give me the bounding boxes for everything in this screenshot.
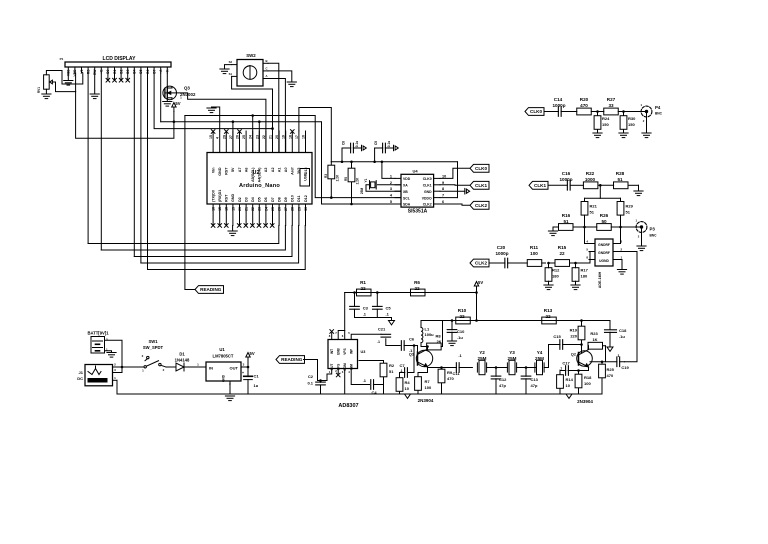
svg-text:R5: R5 (344, 177, 348, 181)
svg-text:C18: C18 (619, 328, 627, 333)
svg-text:25: 25 (242, 135, 246, 139)
junction R11 R12 (547, 262, 550, 265)
svg-text:100: 100 (425, 385, 432, 390)
svg-text:26: 26 (278, 207, 282, 211)
no-connect X at U3 INT (330, 330, 334, 340)
svg-text:(RX)D1: (RX)D1 (218, 190, 222, 202)
wire CLK0 to flag (440, 168, 470, 178)
connector P1 LCD DISPLAY header (60, 56, 171, 76)
svg-text:100u: 100u (425, 332, 435, 337)
ground left of R16 (548, 227, 558, 236)
svg-text:R16: R16 (562, 213, 571, 218)
svg-text:25M: 25M (535, 356, 544, 361)
svg-text:C17: C17 (562, 361, 570, 366)
junction R20 R24 (596, 110, 599, 113)
svg-text:Q1: Q1 (409, 353, 414, 357)
svg-text:RV1: RV1 (37, 87, 41, 93)
wire U3 INP to C21 (351, 334, 381, 339)
junction J1 battery node (117, 366, 123, 373)
svg-text:D3: D3 (244, 197, 248, 202)
svg-text:R13: R13 (544, 308, 553, 313)
wire R16 to R26 (573, 226, 597, 228)
ground at U2 GND top pin (207, 107, 220, 131)
svg-text:1000p: 1000p (552, 103, 565, 108)
resistor R12 180 (545, 263, 560, 285)
svg-text:22: 22 (545, 314, 551, 319)
svg-text:R1: R1 (360, 280, 366, 285)
svg-text:C20: C20 (497, 245, 506, 250)
wire READING to C2 node (304, 360, 321, 381)
svg-text:23: 23 (255, 135, 259, 139)
resistor R9 470 (438, 368, 454, 395)
ground at battery minus (107, 353, 116, 358)
resistor R14 10 (557, 375, 574, 394)
wire R2 C4 to rail (383, 385, 385, 395)
capacitor C11 .1 (451, 353, 472, 376)
svg-text:C15: C15 (553, 334, 561, 339)
resistor R2 51 (359, 361, 395, 385)
connector P3 BNC (635, 219, 657, 239)
label CLK1 flag filter (529, 181, 548, 189)
svg-text:A5(SCL): A5(SCL) (251, 167, 255, 182)
junction Q2 out (601, 360, 604, 363)
junction R3 SCL (330, 196, 333, 199)
svg-text:.1u: .1u (619, 334, 625, 339)
label READING flag at AD8307 (276, 356, 305, 364)
junction emitter (440, 366, 443, 369)
svg-text:470: 470 (607, 373, 614, 378)
connector P4 BNC (624, 103, 663, 123)
svg-text:1000: 1000 (585, 177, 596, 182)
svg-text:470: 470 (580, 103, 588, 108)
svg-text:22: 22 (414, 286, 420, 291)
svg-text:C3: C3 (363, 305, 369, 310)
capacitor C8 0.1u (342, 141, 362, 162)
svg-text:100: 100 (530, 251, 538, 256)
wire collector rail (421, 320, 610, 322)
capacitor C20 1000p (489, 245, 514, 268)
capacitor C1 1u (242, 367, 259, 394)
no-connect X at U3 OFS (336, 369, 340, 377)
svg-text:1000p: 1000p (559, 177, 572, 182)
wire emitter to R7 (418, 368, 428, 373)
resistor R7 100 (415, 373, 432, 395)
junction C3 rail (353, 291, 356, 294)
wire L1 to Q1 collector (421, 345, 429, 348)
capacitor C15 .1 (553, 334, 582, 349)
svg-text:A6: A6 (244, 168, 248, 173)
wire Y4 to C15 (544, 345, 553, 368)
wire C2 node to U3 OUT (321, 369, 332, 381)
svg-text:Y1: Y1 (364, 178, 368, 182)
wire VDD net down to 5V line (76, 92, 174, 139)
ground under R12 (544, 285, 553, 290)
svg-text:CLK1: CLK1 (423, 184, 432, 188)
resistor R11 100 (514, 245, 546, 266)
svg-text:51: 51 (563, 219, 569, 224)
svg-text:150: 150 (602, 122, 609, 127)
ground at SW2 C (287, 82, 296, 87)
wire U2 bottom pin stubs (212, 204, 308, 226)
wire LCD D7 line (154, 73, 274, 130)
resistor R19 220 (570, 321, 585, 353)
resistor R18 100 (575, 371, 592, 395)
svg-text:10: 10 (566, 383, 571, 388)
capacitor C14 1000p (544, 97, 570, 116)
op-amp U2 Arduino_Nano module (207, 153, 312, 205)
svg-text:.1: .1 (400, 369, 403, 373)
svg-text:RST: RST (225, 194, 229, 202)
wire pot bottom to ground (45, 89, 47, 94)
svg-text:19: 19 (282, 135, 286, 139)
junction R21 line (583, 226, 586, 229)
resistor R4 10 (396, 373, 410, 395)
svg-text:6: 6 (442, 200, 444, 204)
power +5V near Q3 (172, 101, 181, 122)
wire SW2 A to A0 (268, 79, 285, 153)
ground under RV1 (42, 94, 51, 99)
svg-text:22: 22 (360, 286, 366, 291)
svg-text:24: 24 (249, 135, 253, 139)
svg-text:47p: 47p (531, 383, 538, 388)
svg-text:S1: S1 (229, 72, 233, 76)
svg-text:25: 25 (271, 207, 275, 211)
svg-text:R6: R6 (414, 280, 420, 285)
svg-text:GNDRF: GNDRF (598, 243, 610, 247)
svg-text:47p: 47p (499, 383, 506, 388)
svg-text:10: 10 (442, 174, 446, 178)
resistor R17 180 (572, 263, 589, 285)
ground arrow right of C9 (394, 145, 399, 151)
svg-text:C14: C14 (554, 97, 563, 102)
svg-text:9: 9 (442, 181, 444, 185)
svg-text:27: 27 (229, 135, 233, 139)
wire LCD E down (100, 73, 102, 250)
svg-text:CLK2: CLK2 (423, 203, 432, 207)
svg-text:BNC: BNC (650, 234, 658, 238)
resistor R3 2.2K (324, 162, 340, 198)
ground arrow at U4 GND pin (440, 188, 470, 194)
svg-text:50: 50 (601, 219, 607, 224)
wire mixer pin4 to P3 line (585, 227, 590, 244)
wire RV1 wiper to LCD VDD (52, 73, 75, 92)
svg-text:U4: U4 (412, 168, 418, 173)
svg-text:RST: RST (225, 167, 229, 175)
svg-text:470: 470 (447, 376, 454, 381)
svg-text:R19: R19 (570, 328, 578, 333)
svg-text:VPS: VPS (343, 348, 347, 354)
svg-text:23: 23 (258, 207, 262, 211)
svg-text:D1: D1 (179, 352, 185, 357)
wire D13 stub (305, 131, 307, 153)
wire mixer pin2 to C19 (619, 252, 637, 362)
wire R26 to P3 (615, 226, 636, 228)
ground at mixer pin1 (617, 270, 626, 275)
wire Q2 base (581, 345, 583, 353)
svg-text:CLK0: CLK0 (475, 166, 487, 171)
svg-text:220: 220 (570, 334, 577, 339)
svg-text:INT: INT (330, 349, 334, 354)
switch SW1 SW_SPDT (142, 339, 166, 373)
svg-text:A7: A7 (238, 168, 242, 173)
svg-text:GNDRF: GNDRF (598, 251, 610, 255)
svg-text:D12: D12 (304, 195, 308, 202)
svg-text:GND: GND (218, 167, 222, 176)
svg-text:1K: 1K (592, 337, 597, 342)
svg-text:IN: IN (209, 366, 213, 371)
svg-text:C9: C9 (374, 141, 378, 145)
resistor R10 22 (456, 308, 471, 324)
svg-text:30: 30 (304, 207, 308, 211)
svg-text:7: 7 (442, 194, 444, 198)
transistor Q1 2N3904 (409, 347, 434, 404)
svg-text:.1: .1 (377, 340, 380, 344)
svg-text:READING: READING (200, 287, 222, 292)
junction rail dots (341, 160, 384, 163)
wire 3V3 net to SI5351 rail (299, 108, 331, 162)
capacitor C6 .1 (401, 337, 417, 354)
svg-text:29: 29 (297, 207, 301, 211)
ground under U1 (225, 396, 234, 401)
junction U1 out (247, 366, 250, 369)
svg-text:CLK1: CLK1 (534, 183, 546, 188)
label CLK2 flag at U4 (470, 201, 489, 209)
resistor R1 22 (357, 280, 372, 296)
svg-text:51: 51 (590, 210, 595, 215)
resistor R22 1000 (583, 171, 613, 189)
svg-text:21: 21 (245, 207, 249, 211)
wire R15 to mixer pin5 (589, 252, 590, 263)
wire SCL net A5 to SI5351 (185, 116, 401, 198)
wire CLK1 to flag (440, 184, 470, 187)
capacitor C10 .1u (447, 321, 465, 342)
svg-text:21: 21 (269, 135, 273, 139)
svg-text:BATT[9V]1: BATT[9V]1 (87, 331, 109, 336)
potentiometer RV1 (37, 75, 52, 93)
capacitor C19 .1 (616, 353, 629, 370)
wire Q1 base from C6 (416, 346, 419, 353)
wire READING riser (185, 116, 195, 290)
USB connector box on U2 (300, 169, 310, 187)
capacitor C12 47p (491, 368, 507, 395)
svg-text:25M: 25M (478, 356, 487, 361)
svg-text:51: 51 (389, 369, 394, 374)
ground under R17 (571, 285, 580, 290)
svg-text:2.2K: 2.2K (336, 174, 340, 181)
resistor R23 1K (588, 331, 606, 362)
capacitor C7 .1 (399, 346, 414, 378)
label CLK0 flag at U4 (470, 164, 489, 172)
junction R5 SDA (350, 203, 353, 206)
capacitor C21 .1 (377, 327, 391, 345)
svg-text:CLK2: CLK2 (475, 261, 487, 266)
wire SW2 S1 to A2 (232, 76, 273, 152)
wire LCD D6 down (147, 73, 149, 270)
svg-text:25M: 25M (508, 356, 517, 361)
svg-text:4: 4 (216, 137, 220, 139)
wire pot top to LCD V0 (46, 71, 82, 85)
junction A5 SCL (251, 114, 254, 117)
junction C5 rail (376, 291, 379, 294)
svg-text:2N3904: 2N3904 (418, 398, 434, 403)
svg-text:P4: P4 (655, 105, 661, 110)
svg-text:R26: R26 (600, 213, 609, 218)
svg-text:R18: R18 (584, 375, 592, 380)
svg-text:GND: GND (222, 374, 226, 382)
wire battery minus to ground (105, 351, 112, 353)
capacitor C18 .1u (605, 321, 628, 348)
capacitor C16 1000p (548, 171, 583, 190)
wire U3 VPS to 5V rail (344, 293, 346, 340)
svg-text:22: 22 (262, 135, 266, 139)
junction R27 R30 (622, 110, 625, 113)
svg-text:16: 16 (212, 207, 216, 211)
wire 5V to collector rail (476, 290, 478, 321)
svg-text:R22: R22 (586, 171, 595, 176)
wire LCD K to Q3 drain (166, 73, 168, 87)
svg-text:R20: R20 (580, 97, 589, 102)
svg-text:R28: R28 (616, 171, 625, 176)
svg-text:GND: GND (424, 190, 432, 194)
svg-text:S2: S2 (229, 60, 233, 64)
svg-text:BNC: BNC (655, 112, 663, 116)
svg-text:1N4148: 1N4148 (175, 358, 190, 363)
svg-text:SW2: SW2 (246, 53, 256, 58)
wire mixer pin1 to ground (619, 260, 622, 270)
wire SW2 C to ground (268, 71, 292, 82)
svg-text:C: C (266, 67, 268, 71)
diode D1 1N4148 (166, 352, 206, 372)
svg-text:D6: D6 (264, 197, 268, 202)
op-amp U4 SI5351A (390, 168, 446, 214)
wire Q2 collector to R23 (587, 346, 590, 350)
wire LCD A to 5V line (160, 73, 162, 122)
no-connect X marks U2 top pins (211, 130, 294, 134)
wire U3 ENB up (338, 331, 345, 340)
svg-text:C5: C5 (386, 305, 392, 310)
svg-text:5V: 5V (478, 280, 483, 285)
capacitor C13 47p (521, 368, 538, 395)
svg-text:C13: C13 (531, 377, 539, 382)
ground under C18 (607, 347, 613, 351)
crystal Y3 25M (507, 350, 516, 375)
ground at U2 GND bottom pin (228, 226, 237, 236)
rotary encoder SW2 (229, 53, 268, 86)
wire CLK2 to flag (440, 204, 470, 205)
label CLK0 flag filter (525, 108, 544, 116)
svg-text:SI5351A: SI5351A (408, 208, 428, 214)
junction C13 (517, 366, 536, 369)
svg-text:C2: C2 (308, 374, 314, 379)
svg-text:Q2: Q2 (571, 353, 576, 357)
svg-text:.1: .1 (559, 367, 562, 371)
resistor R20 470 (570, 97, 598, 115)
svg-text:READING: READING (281, 357, 303, 362)
ground at SW2 S2 (220, 65, 232, 74)
junction R19 base (580, 343, 583, 346)
svg-text:R4: R4 (405, 380, 411, 385)
svg-text:22: 22 (459, 314, 465, 319)
svg-text:A4(SDA): A4(SDA) (258, 167, 262, 183)
svg-text:26: 26 (236, 135, 240, 139)
svg-text:5: 5 (390, 200, 392, 204)
svg-text:R2: R2 (389, 363, 395, 368)
svg-text:A2: A2 (271, 168, 275, 173)
svg-text:GND: GND (231, 193, 235, 202)
svg-text:51: 51 (617, 177, 623, 182)
junction R22 R28 tap (599, 184, 602, 198)
svg-text:SW_SPDT: SW_SPDT (143, 345, 164, 350)
junction C7 tap (413, 344, 416, 347)
svg-text:D10: D10 (291, 195, 295, 202)
svg-text:0.1: 0.1 (307, 381, 313, 386)
svg-text:.1u: .1u (457, 335, 463, 340)
svg-text:CLK1: CLK1 (475, 183, 487, 188)
wire LCD RS down (87, 73, 89, 244)
transistor Q2 2N3904 (571, 350, 593, 405)
svg-text:R23: R23 (590, 331, 598, 336)
svg-text:LM7805CT: LM7805CT (213, 354, 234, 359)
wire J1 pin1 to ground rail (117, 380, 230, 394)
svg-text:UGND: UGND (599, 259, 609, 263)
svg-text:R7: R7 (425, 379, 431, 384)
wire C3 C5 to ground (355, 318, 392, 321)
wire bus rung D10 (134, 226, 292, 257)
wire 5V and SDA line (161, 122, 401, 204)
svg-text:5V: 5V (250, 351, 255, 356)
ground after R28 (634, 185, 643, 195)
capacitor C4 .1 (363, 378, 384, 395)
svg-text:1u: 1u (254, 383, 259, 388)
svg-text:2.2K: 2.2K (356, 177, 360, 184)
svg-text:100: 100 (584, 381, 591, 386)
svg-text:VDD: VDD (403, 177, 411, 181)
label CLK1 flag at U4 (470, 181, 489, 189)
svg-text:A1: A1 (277, 168, 281, 173)
svg-text:2N3904: 2N3904 (577, 399, 593, 404)
wire LCD D4 down (133, 73, 135, 257)
svg-text:D5: D5 (258, 197, 262, 202)
ground marker on rail right (566, 394, 572, 398)
svg-text:R21: R21 (590, 204, 598, 209)
svg-text:CLK2: CLK2 (475, 203, 487, 208)
wire Q3 gate to A3 (177, 93, 266, 153)
svg-text:25M: 25M (360, 188, 364, 195)
svg-text:C6: C6 (409, 337, 415, 342)
svg-text:3: 3 (390, 187, 392, 191)
svg-text:1: 1 (390, 174, 392, 178)
wire U3 INM to C4 (351, 369, 369, 385)
svg-text:Y2: Y2 (479, 350, 485, 355)
wire AD8307 5V rail (345, 292, 477, 294)
resistor R24 150 (594, 112, 610, 134)
svg-text:C12: C12 (499, 377, 507, 382)
svg-text:150: 150 (628, 122, 635, 127)
svg-text:180: 180 (552, 274, 559, 279)
svg-text:Aref: Aref (291, 167, 295, 175)
svg-text:OUT: OUT (330, 364, 334, 371)
resistor R16 51 (559, 213, 574, 230)
capacitor C3 .1 (350, 293, 369, 318)
svg-text:Y3: Y3 (509, 350, 515, 355)
svg-text:Y4: Y4 (537, 350, 543, 355)
svg-text:R10: R10 (458, 308, 467, 313)
wire U1 GND to rail (229, 381, 231, 394)
svg-text:USB: USB (304, 173, 308, 181)
capacitor C2 0.1 (307, 374, 325, 394)
capacitor C9 0.1u (374, 141, 394, 162)
svg-text:R25: R25 (607, 367, 615, 372)
